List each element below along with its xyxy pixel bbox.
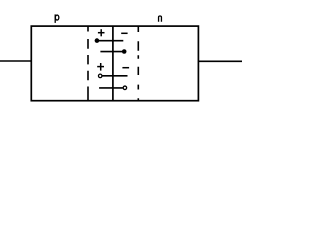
p region label [55, 14, 59, 23]
right lead wire [198, 60, 242, 62]
hole path wire (fourth row) [99, 87, 123, 89]
plus charge symbol (upper, p side) [98, 29, 105, 36]
electron path wire (second row) [100, 51, 124, 53]
minus charge symbol (upper, n side) [121, 32, 127, 34]
hole open circle (fourth row) [123, 86, 127, 90]
electron filled dot (second row) [122, 49, 127, 54]
n region label [159, 16, 162, 22]
electron filled dot (upper row) [95, 38, 100, 43]
depletion boundary dashed line (p side) [87, 26, 89, 101]
hole open circle (third row) [98, 74, 102, 78]
minus charge symbol (lower, n side) [122, 67, 129, 69]
junction line [112, 26, 114, 101]
left lead wire [0, 60, 31, 62]
electron path wire (upper row) [97, 40, 123, 42]
hole path wire (third row) [102, 75, 127, 77]
semiconductor body rectangle [31, 26, 198, 101]
depletion boundary dashed line (n side) [137, 26, 139, 101]
plus charge symbol (lower, p side) [97, 63, 104, 71]
